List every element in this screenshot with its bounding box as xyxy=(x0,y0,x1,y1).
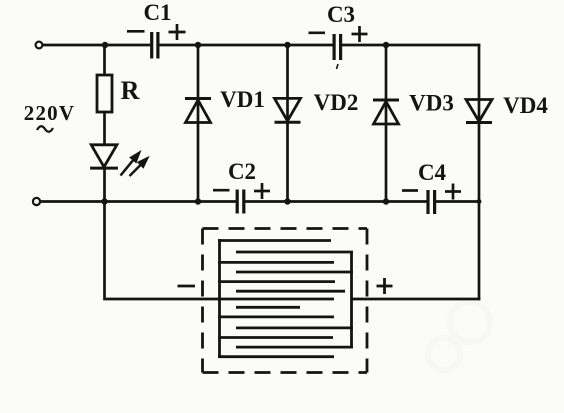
svg-text:C4: C4 xyxy=(418,160,447,185)
wire bottom rail middle xyxy=(245,200,427,203)
wire VD2 branch xyxy=(286,45,289,202)
svg-text:VD4: VD4 xyxy=(503,93,548,118)
wire top rail middle xyxy=(159,44,332,47)
wire R branch upper xyxy=(103,45,106,76)
svg-text:VD1: VD1 xyxy=(220,87,265,112)
wire VD1 branch xyxy=(197,45,200,202)
node top VD3 xyxy=(383,42,389,48)
label 220V xyxy=(24,101,75,132)
capacitor C1 xyxy=(127,0,186,59)
capacitor C3 xyxy=(309,2,368,69)
node bottom VD2 xyxy=(284,198,290,204)
wire LED to bottom rail xyxy=(103,168,106,202)
capacitor C2 xyxy=(213,159,270,214)
wire R to LED xyxy=(103,112,106,145)
node bottom VD3 xyxy=(383,198,389,204)
resistor R xyxy=(97,75,140,112)
diode VD3 xyxy=(373,91,454,125)
wire bottom rail right xyxy=(436,200,479,203)
wire right vertical xyxy=(478,44,481,300)
heating element enclosure xyxy=(203,229,368,373)
node bottom R xyxy=(101,198,107,204)
svg-text:C1: C1 xyxy=(143,0,171,25)
wire VD3 branch xyxy=(385,45,388,202)
capacitor C4 xyxy=(402,160,461,214)
svg-text:C3: C3 xyxy=(327,2,355,27)
svg-text:C2: C2 xyxy=(228,159,256,184)
svg-text:VD3: VD3 xyxy=(409,91,454,116)
node top VD1 xyxy=(195,42,201,48)
wire left down branch xyxy=(105,202,220,300)
node top R xyxy=(102,42,108,48)
svg-text:220V: 220V xyxy=(24,101,75,125)
wire heater right to VD4 xyxy=(352,298,481,301)
LED xyxy=(90,145,147,176)
label minus heater xyxy=(178,285,196,288)
watermark blob xyxy=(428,302,490,370)
wire top rail right xyxy=(342,44,480,47)
node top VD2 xyxy=(284,42,290,48)
label plus heater xyxy=(377,278,393,294)
wire top rail left xyxy=(43,44,151,47)
diode VD4 xyxy=(466,93,548,123)
svg-text:R: R xyxy=(121,76,140,105)
node bottom VD1 xyxy=(195,198,201,204)
diode VD1 xyxy=(185,87,265,123)
node bottom VD4 xyxy=(477,199,482,204)
diode VD2 xyxy=(275,90,359,122)
svg-text:VD2: VD2 xyxy=(314,90,359,115)
wire bottom rail left xyxy=(40,200,236,203)
terminal T1 xyxy=(36,42,43,49)
terminal T2 xyxy=(33,198,40,205)
heating element xyxy=(218,239,353,358)
